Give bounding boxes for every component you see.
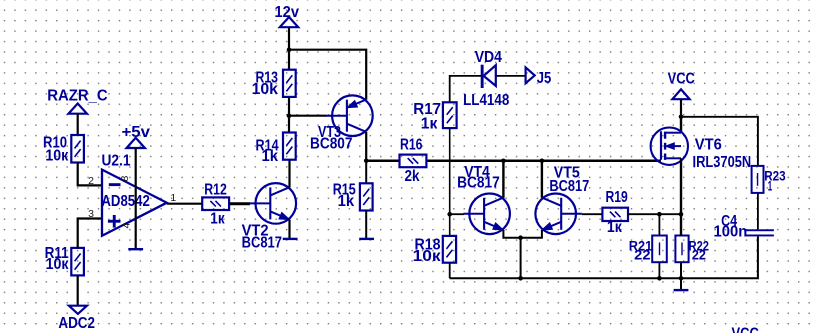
- junction bottom rail at R22: [679, 276, 684, 281]
- svg-text:22: 22: [692, 248, 706, 263]
- net label 12v: [275, 4, 300, 21]
- pin number 4 of U2.1: [121, 223, 133, 229]
- label R14 value 1k: [262, 148, 279, 165]
- svg-text:AD8542: AD8542: [101, 193, 149, 210]
- resistor R21: [652, 236, 667, 263]
- wire VT5 base to R19: [582, 213, 603, 215]
- wire ground stub bottom: [680, 278, 682, 290]
- wire R10 to op-amp pin 2: [78, 162, 102, 185]
- svg-text:2k: 2k: [405, 168, 420, 185]
- junction R21 top node: [657, 212, 662, 217]
- wire 12v branch to VT3 emitter: [289, 50, 366, 100]
- wire main net left of R16: [366, 160, 399, 163]
- wire R23 to C4: [757, 193, 759, 229]
- diode VD4: [481, 65, 496, 88]
- svg-text:22: 22: [634, 248, 650, 263]
- junction VT3 base node: [287, 113, 292, 118]
- wire U2.1 output to R12: [167, 203, 202, 205]
- label VT4 type BC817: [457, 175, 500, 192]
- label R17 value 1к: [421, 115, 438, 132]
- pin number 8 of U2.1: [119, 176, 131, 182]
- supply arrow RAZR_C: [69, 104, 87, 114]
- resistor R11: [71, 248, 84, 276]
- net label +5v: [122, 124, 151, 141]
- svg-text:LL4148: LL4148: [463, 92, 510, 109]
- svg-text:1к: 1к: [210, 211, 225, 228]
- label R19 value 1к: [607, 219, 622, 236]
- wire R18 bottom: [449, 263, 451, 279]
- wire VT4 collector: [502, 161, 504, 198]
- junction VT4 base node: [447, 212, 452, 217]
- label C4 value 100n: [714, 223, 748, 240]
- svg-text:1k: 1k: [338, 193, 355, 210]
- wire R12 to VT2 base: [229, 202, 250, 205]
- wire R15 top: [365, 161, 367, 184]
- label U2.1: [102, 152, 131, 169]
- label R11 name: [45, 245, 70, 262]
- wire emitters to bottom rail: [520, 238, 522, 279]
- svg-text:J5: J5: [537, 70, 552, 87]
- label R10 value 10к: [45, 148, 68, 165]
- label R11 value 10к: [46, 256, 69, 273]
- label VT5 name: [554, 165, 580, 182]
- svg-text:BC807: BC807: [310, 135, 353, 152]
- transistor VT6 MOSFET: [651, 128, 688, 165]
- label R22 name: [689, 238, 710, 253]
- wire R17 to VD4: [450, 76, 481, 102]
- svg-text:10к: 10к: [413, 248, 441, 265]
- wire R19 to source node: [628, 213, 681, 215]
- wire VT2 emitter to ground: [288, 220, 290, 238]
- supply arrow 12v: [280, 17, 298, 27]
- resistor R13: [283, 70, 296, 97]
- pin number 2 of U2.1: [88, 175, 94, 187]
- label VT2 name: [242, 222, 269, 239]
- svg-text:100n: 100n: [714, 223, 748, 240]
- supply arrow ADC2: [69, 306, 87, 314]
- svg-text:3: 3: [88, 208, 94, 220]
- svg-text:R16: R16: [400, 136, 423, 153]
- junction VT6 drain node: [679, 115, 684, 120]
- net label ADC2: [58, 315, 95, 332]
- wire VT6 source to R22: [680, 158, 682, 236]
- svg-text:2: 2: [88, 175, 94, 187]
- svg-text:1: 1: [170, 192, 176, 204]
- wire to VT4 base: [450, 213, 464, 215]
- op-amp U2.1 plus sign: [108, 215, 121, 228]
- ground below R15: [359, 238, 374, 240]
- op-amp U2.1 body: [102, 170, 167, 236]
- pin number 1 of U2.1: [170, 192, 176, 204]
- net label RAZR_C: [47, 88, 107, 105]
- wire R17 to R18 column: [449, 128, 451, 236]
- wire to VT3 base: [289, 115, 327, 117]
- wire main net R16 to VT6 gate: [426, 160, 661, 163]
- wire VT5 collector: [541, 161, 543, 198]
- label VT3 type BC807: [310, 135, 353, 152]
- op-amp U2.1 minus sign: [109, 183, 121, 186]
- junction emitters node: [518, 235, 523, 240]
- label R10 name: [43, 135, 67, 152]
- label R16 value 2k: [405, 168, 420, 185]
- svg-text:VT6: VT6: [695, 136, 722, 153]
- junction 12v branch: [287, 47, 292, 52]
- label VT6 type IRL3705N: [693, 154, 752, 171]
- junction VT4 collector: [501, 159, 506, 164]
- svg-text:BC817: BC817: [242, 235, 282, 252]
- resistor R16: [400, 155, 427, 168]
- label R12 name: [204, 181, 227, 198]
- wire 12v to R13: [288, 27, 290, 69]
- resistor R23: [752, 166, 764, 193]
- label R23 value 1: [768, 178, 773, 193]
- svg-text:8: 8: [119, 176, 131, 182]
- transistor VT2: [250, 183, 296, 224]
- svg-text:1: 1: [768, 178, 773, 193]
- svg-text:4: 4: [121, 223, 133, 229]
- svg-text:1k: 1k: [262, 148, 279, 165]
- wire drain node to R23 branch: [681, 117, 758, 166]
- label VT3 name: [318, 124, 341, 141]
- transistor VT4: [463, 194, 510, 235]
- ground below U2.1: [128, 248, 143, 250]
- label R19 name: [606, 189, 628, 206]
- label VT2 type BC817: [242, 235, 282, 252]
- label C4 name: [721, 213, 737, 230]
- wire VT6 drain: [680, 117, 682, 133]
- svg-text:1к: 1к: [421, 115, 438, 132]
- ground below VT2: [283, 238, 298, 240]
- transistor VT3: [326, 95, 373, 136]
- svg-text:U2.1: U2.1: [102, 152, 131, 169]
- svg-text:10к: 10к: [45, 148, 68, 165]
- resistor R12: [202, 197, 229, 210]
- resistor R14: [283, 133, 296, 160]
- label R18 name: [415, 236, 442, 253]
- label R22 value 22: [692, 248, 706, 263]
- wire VD4 to J5: [496, 75, 526, 77]
- label VT5 type BC817: [549, 178, 589, 195]
- junction VT5 collector: [540, 159, 545, 164]
- wire RAZR_C to R10: [77, 114, 79, 136]
- svg-text:VD4: VD4: [475, 49, 503, 66]
- resistor R18: [443, 236, 456, 263]
- wire R15 bottom to ground: [365, 211, 367, 239]
- net label VCC top: [668, 70, 695, 87]
- ground at bottom rail: [674, 289, 689, 291]
- wire R11 to ADC2: [77, 275, 79, 306]
- resistor R17: [443, 102, 457, 128]
- label R16 name: [400, 136, 423, 153]
- svg-text:R19: R19: [606, 189, 628, 206]
- svg-text:10k: 10k: [252, 81, 279, 98]
- resistor R15: [360, 183, 373, 210]
- label J5: [537, 70, 552, 87]
- svg-text:R12: R12: [204, 181, 227, 198]
- wire C4 to bottom rail: [450, 236, 758, 278]
- capacitor C4: [745, 229, 774, 236]
- wire R22 bottom: [680, 262, 682, 278]
- label R23 name: [764, 169, 786, 184]
- svg-text:VCC: VCC: [668, 70, 695, 87]
- wire R21 top: [658, 214, 660, 236]
- supply arrow VCC: [672, 89, 689, 99]
- label R18 value 10к: [413, 248, 441, 265]
- label VT6 name: [695, 136, 722, 153]
- wire VT5 emitter: [521, 230, 542, 238]
- label R13 name: [256, 70, 279, 87]
- label R17 name: [413, 101, 441, 118]
- svg-text:BC817: BC817: [457, 175, 500, 192]
- label R13 value 10k: [252, 81, 279, 98]
- connector J5 arrow: [526, 67, 535, 83]
- label VD4 name: [475, 49, 503, 66]
- label R15 value 1k: [338, 193, 355, 210]
- resistor R10: [71, 135, 84, 163]
- wire R21 bottom: [658, 262, 660, 278]
- pin number 3 of U2.1: [88, 208, 94, 220]
- junction bottom rail at R21: [657, 276, 662, 281]
- label R21 name: [629, 238, 653, 253]
- wire VT3 collector to main net: [365, 132, 367, 161]
- svg-text:1к: 1к: [607, 219, 622, 236]
- label VT4 name: [464, 164, 490, 181]
- supply arrow +5v: [127, 138, 145, 148]
- svg-text:VCC: VCC: [732, 326, 759, 333]
- wire R11 to op-amp pin 3: [78, 219, 102, 249]
- label R21 value 22: [634, 248, 650, 263]
- transistor VT5: [535, 194, 582, 235]
- svg-text:BC817: BC817: [549, 178, 589, 195]
- junction R22 top node: [679, 212, 684, 217]
- wire R13 to R14: [288, 97, 290, 133]
- wire VCC to drain node: [680, 99, 682, 117]
- label R14 name: [256, 137, 280, 154]
- resistor R22: [675, 236, 688, 263]
- label R15 name: [333, 182, 357, 199]
- svg-text:10к: 10к: [46, 256, 69, 273]
- label VD4 type LL4148: [463, 92, 510, 109]
- resistor R19: [602, 208, 628, 221]
- net label VCC bottom: [732, 326, 759, 333]
- label R12 value 1к: [210, 211, 225, 228]
- junction bottom rail middle: [518, 276, 523, 281]
- wire VT2 collector to R14: [288, 160, 290, 188]
- junction main net at R15: [364, 159, 369, 164]
- wire +5v power pin through U2.1: [135, 148, 137, 249]
- svg-text:ADC2: ADC2: [58, 315, 95, 332]
- svg-text:IRL3705N: IRL3705N: [693, 154, 752, 171]
- label AD8542: [101, 193, 149, 210]
- wire VT4 emitter: [503, 230, 520, 238]
